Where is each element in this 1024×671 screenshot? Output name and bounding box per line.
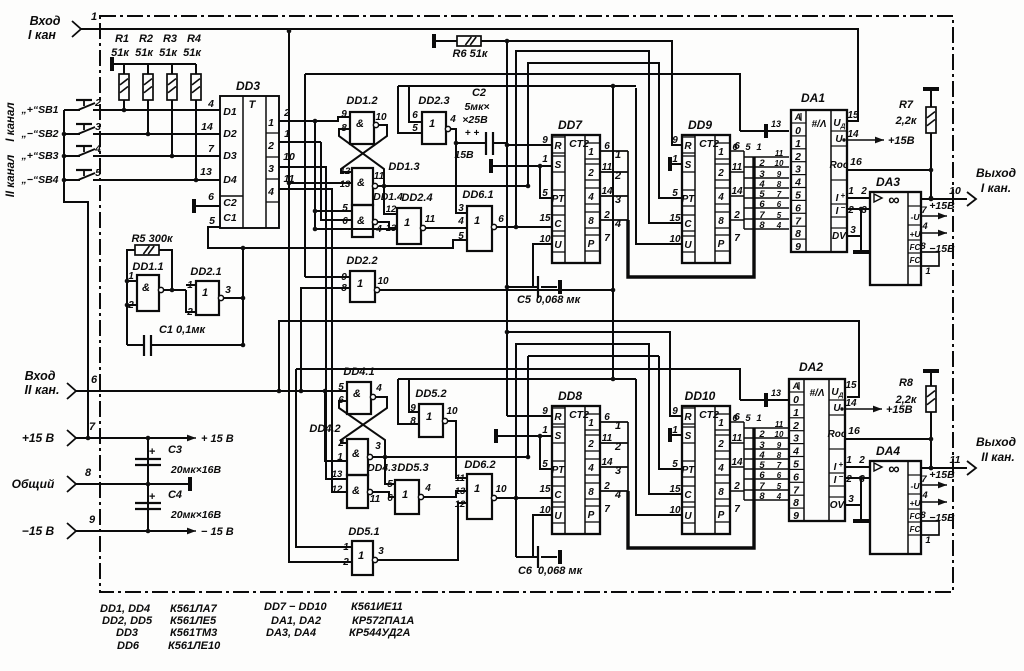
svg-text:Вход: Вход [25,369,56,383]
terminator DD7 S [489,159,493,173]
svg-text:−15 В: −15 В [22,524,55,538]
wire DD5.2 pin8 feedback [398,379,419,424]
wire input ch2 [76,390,347,392]
svg-text:II кан.: II кан. [981,450,1015,464]
terminator DD10 S [668,428,672,442]
wire DD2.3 out to DD6.1 pin3 [451,129,467,213]
svg-text:1: 1 [793,407,799,419]
wire feedback line y74 [305,74,740,131]
svg-text:−: − [841,203,846,212]
svg-text:Общий: Общий [12,477,55,491]
svg-text:DD2, DD5: DD2, DD5 [102,615,153,627]
resistor R4 51k [183,33,202,182]
svg-text:1: 1 [795,138,801,150]
svg-text:I: I [836,206,839,217]
svg-text:9: 9 [89,514,96,526]
svg-text:51к: 51к [183,47,202,59]
svg-text:I: I [836,193,839,204]
gate DD2.2 [341,255,389,302]
svg-text:+15В: +15В [888,135,915,147]
svg-text:13: 13 [386,223,397,234]
IC DD7 counter [539,118,613,263]
wire feedback line y356 [528,355,659,357]
svg-text:4: 4 [614,489,621,501]
svg-text:15: 15 [847,110,859,121]
svg-text:51к: 51к [111,47,130,59]
svg-text:DD4.1: DD4.1 [343,366,374,378]
svg-text:Д: Д [840,123,846,130]
svg-text:3: 3 [225,284,231,296]
svg-text:9: 9 [777,441,782,450]
svg-text:FC: FC [910,243,921,252]
svg-text:16: 16 [850,156,862,168]
svg-text:К561ТМ3: К561ТМ3 [170,627,217,639]
svg-text:11: 11 [374,171,385,182]
svg-text:7: 7 [604,504,610,515]
svg-text:10: 10 [949,185,961,197]
svg-text:∞: ∞ [888,461,899,478]
svg-text:U: U [684,511,692,522]
svg-text:10: 10 [775,430,784,439]
svg-text:C1 0,1мк: C1 0,1мк [159,324,207,336]
svg-text:8: 8 [777,451,782,460]
svg-text:DD9: DD9 [688,118,712,132]
wire DD10 PT feedback [659,356,682,469]
wire SB4 to DD3 [93,179,220,181]
svg-text:DD6.1: DD6.1 [462,189,493,201]
wire DD7 S-PT tie [540,166,552,198]
IC DA4 op-amp [870,444,921,554]
svg-text:PT: PT [682,465,696,476]
svg-text:1: 1 [542,425,548,436]
svg-text:#/Λ: #/Λ [811,119,826,130]
svg-text:4: 4 [717,463,724,474]
svg-text:16: 16 [848,425,860,437]
wire DD6.2 out clock ch2 [497,497,552,499]
wire DD4.3 out to DD5.3 pin6 [373,492,395,497]
svg-text:8: 8 [410,416,416,427]
svg-text:DD4.3: DD4.3 [367,462,397,474]
svg-text:-U: -U [911,481,921,491]
wire DD1.1 out to DD2.1 [164,289,186,291]
bus rows to DA1 [744,156,789,158]
svg-text:9: 9 [672,406,678,417]
svg-text:КР544УД2А: КР544УД2А [349,627,411,639]
svg-text:„−“SB4: „−“SB4 [20,174,58,186]
svg-text:8: 8 [920,241,926,252]
svg-text:DD2.1: DD2.1 [190,266,221,278]
capacitor C5 0.068uF [507,244,582,306]
svg-text:4: 4 [375,383,382,394]
svg-text:2: 2 [758,429,765,440]
svg-text:13: 13 [200,166,212,178]
switch SB1 [20,97,220,116]
svg-text:51к: 51к [159,47,178,59]
svg-text:1: 1 [474,215,480,227]
svg-text:∞: ∞ [888,192,899,209]
svg-text:5: 5 [338,382,344,393]
svg-text:9: 9 [777,170,782,179]
svg-text:DD1, DD4: DD1, DD4 [100,603,150,615]
wire input ch2 to DD4.2 pin1 [325,391,347,461]
svg-text:DD8: DD8 [558,389,582,403]
wire reset vertical [506,41,508,416]
output terminal Выход I кан [967,166,1016,206]
svg-text:20мк×16В: 20мк×16В [170,464,222,476]
svg-text:DD2.2: DD2.2 [346,255,377,267]
svg-text:7: 7 [734,504,740,515]
svg-text:U: U [835,134,843,145]
resistor R7 2.2k [895,89,939,200]
svg-text:8: 8 [85,467,92,479]
board border (dash-dot frame) [100,16,953,592]
wire DD1.4 out to DD2.4 pin13 [378,222,397,228]
svg-text:7: 7 [777,461,782,470]
svg-text:11: 11 [950,454,961,466]
svg-text:CT2: CT2 [569,138,589,150]
node +supply bar for R1-R4 [110,57,114,71]
svg-text:DA1: DA1 [801,91,825,105]
wire DD10 U [636,379,682,515]
svg-text:2: 2 [337,438,344,449]
wire DD5.3 out to DD6.2 [424,491,467,497]
svg-text:0,068 мк: 0,068 мк [538,565,584,577]
svg-text:R: R [684,141,692,152]
svg-text:S: S [685,160,692,171]
svg-text:„+“SB1: „+“SB1 [20,104,58,116]
wire feedback line y379 [398,378,636,380]
svg-text:+: + [839,460,844,469]
svg-text:DD6: DD6 [117,640,140,652]
svg-text:4: 4 [717,192,724,203]
legend parts list [100,601,414,652]
wire feedback line y86 [398,85,636,87]
svg-text:15: 15 [539,484,551,495]
svg-text:1: 1 [588,418,594,429]
svg-text:3: 3 [268,163,274,175]
svg-text:3: 3 [615,194,621,206]
capacitor C1 0.1uF [127,305,243,356]
wire DD2.4 out to DD6.1 [426,227,467,229]
svg-text:4: 4 [587,192,594,203]
svg-text:C3: C3 [168,444,182,456]
wire cross-couple DD1.2/DD1.3 [341,125,387,172]
svg-text:+15В: +15В [929,200,955,212]
svg-text:R: R [684,412,692,423]
gate DD4.2 [309,423,381,475]
svg-text:0: 0 [795,125,801,137]
svg-text:2: 2 [758,158,765,169]
capacitor C3 20uF [135,438,221,484]
svg-text:DD3: DD3 [116,627,138,639]
switch SB2 [20,121,220,140]
svg-text:7: 7 [921,474,927,485]
svg-text:4: 4 [776,221,782,230]
gate DD2.3 [412,95,456,144]
wire DD5.1 pin2 from input ch1 [289,31,352,562]
svg-text:5: 5 [745,413,751,424]
svg-text:13: 13 [771,119,781,129]
svg-text:DD5.2: DD5.2 [415,388,446,400]
svg-text:3: 3 [850,225,856,236]
gate DD1.4 [342,191,403,237]
DA3 correction network [921,252,939,266]
wire DD2.3 pin6 from feedback [409,86,422,122]
svg-text:C: C [554,219,562,230]
svg-text:7: 7 [921,205,927,216]
wire DD5.2 pin9 feedback [409,379,419,412]
gate DD6.1 [457,189,504,251]
capacitor C4 20uF [135,484,221,531]
wire cross-couple DD4.1/DD4.2 [341,397,387,443]
svg-text:3: 3 [795,164,801,176]
svg-text:9: 9 [795,241,801,253]
svg-text:C2: C2 [223,197,237,209]
wire DA3 output [921,198,967,200]
svg-text:6: 6 [342,216,348,227]
svg-text:8: 8 [793,497,799,509]
svg-text:6: 6 [759,470,765,481]
svg-text:U: U [833,403,841,414]
svg-text:8: 8 [777,180,782,189]
svg-text:DA4: DA4 [876,444,900,458]
gate DD4.1 [338,366,382,414]
svg-text:2: 2 [717,168,724,179]
svg-text:P: P [718,239,725,250]
DA4 correction network [921,521,939,535]
IC DD3 trigger [200,79,279,228]
svg-text:DD6.2: DD6.2 [464,459,495,471]
svg-text:5: 5 [777,211,782,220]
svg-text:12: 12 [332,484,343,495]
svg-text:I: I [834,462,837,473]
svg-text:1: 1 [404,217,410,229]
wire DD5.2 out to DD6.2 pin11 [448,421,467,478]
wire SB3 to DD3 [93,155,220,157]
svg-text:PT: PT [552,194,566,205]
svg-text:1: 1 [358,550,364,562]
svg-text:2: 2 [794,151,801,163]
svg-text:1: 1 [848,186,854,197]
wire DD2.2 out [380,289,613,291]
svg-text:R2: R2 [139,33,153,45]
svg-text:4: 4 [424,483,431,494]
svg-text:6: 6 [795,202,801,214]
svg-text:DA3: DA3 [876,175,900,189]
IC DD9 counter [669,118,743,263]
svg-text:4: 4 [794,177,801,189]
wire R6 reset line to DD9 R [481,41,682,145]
capacitor C2 5uF [454,87,507,161]
svg-text:5: 5 [795,190,801,202]
svg-text:2: 2 [267,140,274,152]
svg-text:„−“SB2: „−“SB2 [20,128,58,140]
svg-text:− 15 В: − 15 В [201,526,234,538]
svg-text:11: 11 [775,149,784,158]
wire DD4.2 out to DD5.3 pin5 [385,457,395,484]
svg-text:5: 5 [209,215,215,227]
svg-text:&: & [353,388,361,400]
svg-text:2: 2 [587,168,594,179]
bus thick ch1 [628,157,754,277]
wire input ch1 to DA1 Ud [81,29,858,121]
gate DD5.2 [410,388,458,437]
svg-text:Выход: Выход [976,166,1016,180]
svg-text:4: 4 [457,216,464,227]
svg-text:2: 2 [614,170,621,182]
resistor R3 51k [159,33,178,158]
svg-text:Rос: Rос [828,429,847,440]
svg-text:&: & [357,215,365,227]
svg-text:8: 8 [588,216,594,227]
svg-text:DD5.1: DD5.1 [348,526,379,538]
svg-text:P: P [718,510,725,521]
svg-text:15: 15 [669,484,681,495]
svg-text:6: 6 [498,214,504,225]
svg-text:5: 5 [542,188,548,199]
wire osc node vertical [242,249,244,345]
wire DD5.1 out to DD6.2 pin12 [378,503,467,560]
svg-text:3: 3 [793,433,799,445]
svg-text:&: & [352,448,360,460]
svg-text:1: 1 [925,266,930,277]
wire DD1.3 out to DD2.4 pin12 [384,186,397,214]
svg-text:3: 3 [378,546,384,557]
svg-text:1: 1 [426,411,432,423]
resistor R8 2.2k [895,371,939,470]
svg-text:15: 15 [669,213,681,224]
svg-text:D2: D2 [223,128,237,140]
svg-text:+15В: +15В [929,469,955,481]
svg-text:6: 6 [793,471,799,483]
wire DD9 U [636,88,682,244]
svg-text:DD1.2: DD1.2 [346,95,377,107]
svg-text:7: 7 [89,421,96,433]
svg-text:FC: FC [910,525,921,534]
svg-text:2,2к: 2,2к [895,394,918,406]
svg-text:11: 11 [775,420,784,429]
svg-text:2: 2 [587,439,594,450]
svg-text:11: 11 [370,494,381,505]
svg-text:Д: Д [838,392,844,399]
svg-text:+ 15 В: + 15 В [201,433,234,445]
svg-text:R6 51к: R6 51к [453,48,489,60]
svg-text:4: 4 [776,492,782,501]
wire DD3 C1 to oscillator [208,227,467,248]
svg-text:2: 2 [94,97,101,109]
svg-text:FC: FC [910,512,921,521]
svg-text:4: 4 [921,221,928,232]
svg-text:9: 9 [542,135,548,146]
svg-text:Выход: Выход [976,435,1016,449]
svg-text:6: 6 [732,142,738,153]
gate DD1.3 [340,161,420,205]
svg-text:C: C [684,219,692,230]
svg-text:U: U [684,240,692,251]
svg-text:1: 1 [615,149,621,161]
IC DA3 op-amp [870,175,921,285]
svg-text:PT: PT [552,465,566,476]
svg-text:8: 8 [718,216,724,227]
svg-text:15: 15 [539,213,551,224]
svg-text:A: A [794,112,802,122]
svg-text:1: 1 [756,142,761,153]
gate DD1.2 [341,95,387,144]
svg-text:D4: D4 [223,174,237,186]
svg-text:Вход: Вход [30,14,61,28]
svg-text:C1: C1 [223,212,237,224]
svg-text:4: 4 [94,143,101,155]
switch SB4 [20,167,220,186]
wire DD3 out1 down [314,121,316,229]
svg-text:15: 15 [845,380,857,391]
svg-text:S: S [555,160,562,171]
svg-text:C5: C5 [517,294,532,306]
svg-text:10: 10 [775,159,784,168]
svg-text:8: 8 [759,220,765,231]
svg-text:9: 9 [672,135,678,146]
svg-text:II канал: II канал [5,155,17,198]
wire DD3 out2 to DD1.4 pin6 [321,142,352,220]
svg-text:+: + [149,446,156,458]
wire reset to DD8 R [507,415,552,417]
svg-text:12: 12 [340,166,351,177]
svg-text:5: 5 [458,231,464,242]
svg-text:10: 10 [669,505,681,516]
svg-text:−: − [839,472,844,481]
svg-text:1: 1 [846,455,852,466]
svg-text:+U: +U [909,498,921,508]
resistor R6 51k [434,34,489,60]
svg-text:1: 1 [91,11,97,23]
svg-text:1: 1 [615,420,621,432]
svg-text:1: 1 [202,287,208,299]
svg-text:4: 4 [614,218,621,230]
svg-text:2: 2 [717,439,724,450]
svg-text:14: 14 [847,129,859,140]
bus thick ch2 [628,428,754,548]
terminator DA1 pin13 [764,124,768,138]
svg-text:1: 1 [337,452,343,463]
svg-text:P: P [588,510,595,521]
svg-text:&: & [352,485,360,497]
svg-text:3: 3 [375,441,381,452]
wire DD2.2 pin9 drop [304,74,306,277]
svg-text:3: 3 [848,494,854,505]
svg-text:10: 10 [375,112,387,123]
wire DD6.1 out clock ch1 [497,226,552,228]
svg-text:DD1.3: DD1.3 [388,161,419,173]
svg-text:&: & [357,177,365,189]
svg-text:−15В: −15В [929,512,955,524]
svg-text:P: P [588,239,595,250]
svg-text:×25В: ×25В [462,114,488,126]
wire clock ch1 over-route to DD9 C [516,51,682,227]
svg-text:DD4.2: DD4.2 [309,423,340,435]
svg-text:2: 2 [858,455,865,466]
resistor R1 51k [111,33,130,112]
svg-text:13: 13 [771,388,781,398]
svg-text:8: 8 [588,487,594,498]
wire DD2.1 out node [224,297,243,299]
svg-text:1: 1 [429,118,435,130]
svg-text:DD5.3: DD5.3 [397,462,428,474]
wire branch to DD1.4 pin5 [315,210,352,212]
input terminal Вход I кан [28,11,97,42]
svg-text:CT2: CT2 [699,409,719,421]
terminator DD9 S [668,157,672,171]
wire DD5.1 pin1 feedback [296,369,352,547]
